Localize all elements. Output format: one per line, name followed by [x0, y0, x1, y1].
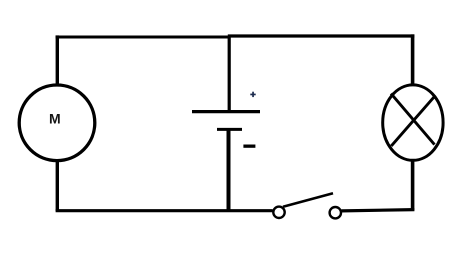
svg-text:M: M [49, 111, 61, 127]
